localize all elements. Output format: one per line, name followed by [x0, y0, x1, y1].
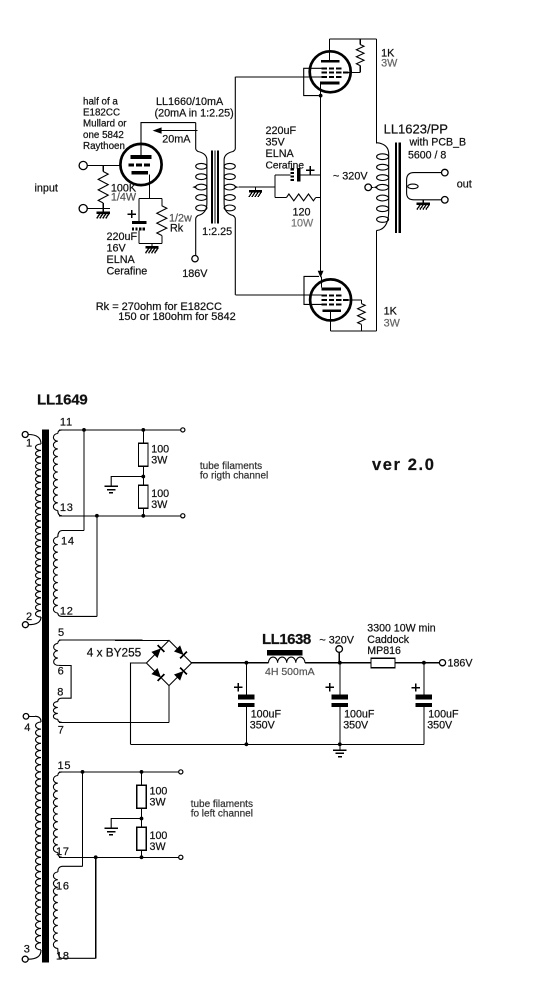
junction right ch b [95, 514, 99, 518]
wire 15 to 16 parallel link [82, 772, 84, 866]
current arrow 20mA [153, 127, 162, 133]
svg-text:2: 2 [26, 611, 32, 623]
wire V1 plate to T1 primary [141, 123, 196, 156]
ground left ch [105, 827, 118, 829]
tube V1 half E182CC envelope [120, 144, 161, 185]
terminal filament + right ch [181, 428, 185, 432]
plus mark C3 [412, 687, 420, 689]
plus mark C1 [234, 686, 242, 688]
svg-text:1/4W: 1/4W [111, 192, 137, 204]
svg-text:18: 18 [56, 951, 70, 963]
tube V2 grid g2 dashes [322, 72, 327, 74]
T3 primary winding 4-3 [29, 715, 35, 717]
T3 winding 15-17 [58, 772, 62, 776]
resistor Rk [161, 199, 163, 206]
svg-text:Rk: Rk [170, 223, 184, 235]
tube V3 grid g2 dashes [322, 299, 327, 301]
junction left ch mid [140, 817, 144, 821]
wire top rail [330, 38, 377, 40]
svg-text:3W: 3W [384, 318, 401, 330]
bridge rectifier diamond [146, 640, 191, 685]
ground at input [102, 209, 104, 212]
svg-text:7: 7 [58, 725, 64, 737]
svg-text:4H 500mA: 4H 500mA [265, 666, 315, 678]
resistor 120 10W [275, 196, 286, 198]
svg-text:220uF: 220uF [266, 125, 297, 137]
svg-text:6: 6 [58, 666, 64, 678]
wire cap branch [275, 174, 290, 176]
capacitor 220uF/35V [290, 168, 294, 181]
svg-text:186V: 186V [448, 657, 474, 669]
svg-text:35V: 35V [266, 137, 286, 149]
ground at center tap [254, 187, 256, 190]
svg-text:with PCB_B: with PCB_B [409, 136, 467, 148]
T3 winding 5-6 [58, 640, 62, 643]
tube V3 plate bar [323, 309, 341, 312]
junction left ch a [81, 770, 85, 774]
junction C2 top [338, 661, 342, 665]
junction C1 top [245, 661, 249, 665]
wire filament rail bottom left ch [59, 856, 179, 858]
junction right ch c [141, 428, 145, 432]
svg-text:Cerafine: Cerafine [107, 266, 148, 278]
wire cathode bus [320, 96, 322, 272]
svg-text:Mullard or: Mullard or [83, 119, 127, 130]
wire center tap to 320V terminal [372, 186, 374, 188]
input terminal J2 (return) [79, 205, 87, 213]
capacitor C1 100uF/350V [245, 663, 247, 695]
wire winding 7 to bridge [59, 721, 169, 723]
svg-text:1K: 1K [384, 306, 398, 318]
T3 primary terminal 2 [22, 622, 28, 628]
svg-text:8: 8 [57, 687, 63, 699]
diode D3 (left-bottom) [151, 668, 161, 678]
terminal out hot [442, 169, 449, 176]
wire B+ rail lower [375, 231, 377, 331]
svg-text:5600 / 8: 5600 / 8 [408, 150, 446, 162]
T1 core [211, 151, 213, 224]
svg-text:3W: 3W [151, 455, 168, 467]
junction C1 bottom [245, 742, 249, 746]
svg-text:input: input [35, 183, 58, 195]
wire 11 to 14 parallel link [83, 430, 85, 531]
svg-text:3W: 3W [150, 797, 167, 809]
T1 primary tap mark [192, 186, 196, 189]
wire grid rail upper [235, 76, 321, 78]
transformer T1 LL1660 secondary [224, 77, 235, 295]
T3 winding 14-12 [58, 531, 84, 538]
choke LL1638 winding [269, 657, 305, 663]
transformer T2 secondary [407, 173, 442, 200]
svg-text:100uF: 100uF [251, 708, 282, 720]
wire bottom PSU rail [131, 743, 424, 745]
wire B+ rail upper [375, 39, 377, 144]
junction right ch d [141, 514, 145, 518]
svg-text:12: 12 [60, 606, 74, 618]
wire 17 to 18 parallel link [95, 857, 97, 958]
input terminal J1 (hot) [79, 161, 87, 169]
transformer T1 LL1660 primary [196, 123, 207, 256]
T3 winding 11-13 [58, 430, 62, 434]
terminal 186V (T1 primary return) [192, 256, 198, 262]
wire input to grid [87, 165, 120, 167]
svg-text:20mA: 20mA [162, 134, 191, 146]
plus mark C2 [326, 686, 334, 688]
T3 winding 16-18 [58, 866, 83, 872]
T2 primary center tap mark [373, 186, 376, 189]
svg-text:Cerafine: Cerafine [266, 161, 305, 172]
tube V2 grid g1 dashes [322, 76, 327, 78]
junction C3 top [422, 661, 426, 665]
tube V1 plate bar [131, 155, 152, 159]
svg-text:~ 320V: ~ 320V [333, 171, 368, 183]
svg-text:4 x BY255: 4 x BY255 [87, 645, 142, 659]
svg-text:15: 15 [58, 760, 72, 772]
V3 g3-cathode strap [304, 276, 322, 304]
wire grid rail lower [235, 294, 321, 296]
node bias network left bracket [274, 175, 276, 198]
svg-text:4: 4 [24, 722, 30, 734]
terminal filament - right ch [181, 514, 185, 518]
tube V3 cathode bar [321, 287, 341, 290]
capacitor C3 100uF/350V [423, 663, 425, 695]
tube V3 grid g3 dashes [322, 303, 327, 305]
wire V1 cathode [149, 175, 151, 199]
svg-text:14: 14 [61, 536, 75, 548]
svg-text:out: out [457, 179, 472, 191]
transformer T2 primary [376, 143, 388, 231]
diode D2 (top-right) [174, 645, 184, 655]
svg-text:16: 16 [56, 881, 70, 893]
junction left ch d [140, 855, 144, 859]
svg-text:fo left channel: fo left channel [191, 808, 253, 819]
svg-text:MP816: MP816 [367, 645, 401, 657]
tube V3 envelope [310, 279, 351, 320]
svg-text:ELNA: ELNA [107, 254, 136, 266]
resistor 100 3W lower right ch [142, 477, 144, 486]
tube V3 grid g1 dashes [322, 294, 327, 296]
svg-text:ver 2.0: ver 2.0 [372, 456, 436, 474]
wire winding 5 to bridge [59, 639, 169, 641]
resistor Caddock MP816 [371, 658, 395, 668]
svg-text:1:2.25: 1:2.25 [202, 226, 232, 238]
svg-text:100uF: 100uF [344, 708, 375, 720]
T3 primary terminal 3 [22, 956, 28, 962]
tube V1 grid dashes [128, 164, 134, 167]
tube V2 grid g3 dashes [322, 67, 327, 69]
svg-text:10W: 10W [291, 218, 314, 230]
svg-text:Raythoen: Raythoen [83, 141, 125, 152]
svg-text:fo rigth channel: fo rigth channel [200, 470, 268, 481]
wire DC plus rail [192, 662, 269, 664]
junction left ch c [140, 770, 144, 774]
wire input return [87, 208, 110, 210]
svg-text:half of a: half of a [83, 97, 118, 108]
svg-text:3300 10W min: 3300 10W min [367, 623, 435, 635]
diode D1 (left-top) [151, 648, 161, 658]
svg-text:17: 17 [56, 846, 70, 858]
junction left ch b [94, 855, 98, 859]
svg-text:150 or 180ohm for 5842: 150 or 180ohm for 5842 [118, 311, 235, 323]
terminal ~320V PSU [336, 646, 343, 653]
wire bottom rail [331, 330, 377, 332]
wire filament rail top left ch [59, 771, 179, 773]
wire to ground right ch [111, 477, 143, 487]
resistor 1K 3W lower [349, 299, 362, 301]
junction C2 bottom [338, 742, 342, 746]
svg-text:350V: 350V [343, 720, 369, 732]
svg-text:3W: 3W [381, 58, 398, 70]
svg-text:3: 3 [24, 944, 30, 956]
junction right ch a [82, 428, 86, 432]
ground PSU [339, 744, 341, 750]
resistor 1K 3W upper [359, 39, 361, 45]
svg-text:350V: 350V [427, 720, 453, 732]
wire cathode network bottom rail [139, 242, 162, 244]
capacitor C2 100uF/350V [339, 663, 341, 695]
T3 primary terminal 1 [22, 432, 28, 438]
svg-text:ELNA: ELNA [266, 148, 295, 160]
svg-text:LL1649: LL1649 [37, 392, 88, 409]
tube V1 cathode bar [132, 171, 149, 175]
wire choke to 186V [305, 662, 440, 664]
svg-text:one 5842: one 5842 [83, 130, 124, 141]
svg-text:100uF: 100uF [428, 708, 459, 720]
svg-text:LL1660/10mA: LL1660/10mA [156, 96, 224, 108]
T3 winding 8-7 [58, 698, 62, 701]
svg-text:~ 320V: ~ 320V [319, 635, 354, 647]
wire 6-8 series link [62, 666, 71, 699]
svg-text:LL1638: LL1638 [262, 631, 311, 648]
svg-text:186V: 186V [182, 268, 208, 280]
ground at T2 secondary [422, 200, 424, 203]
plus mark of 220uF/16V [128, 213, 136, 215]
svg-text:(20mA in 1:2.25): (20mA in 1:2.25) [155, 108, 234, 120]
svg-text:5: 5 [58, 627, 64, 639]
wire center tap [239, 186, 276, 188]
terminal ~320V plate supply [365, 184, 372, 191]
svg-text:16V: 16V [107, 243, 127, 255]
svg-text:220uF: 220uF [107, 231, 138, 243]
resistor 100 3W upper left ch [141, 772, 143, 785]
ground below Rk [151, 243, 153, 246]
wire filament rail bottom right ch [59, 515, 181, 517]
T3 primary winding 1-2 [28, 435, 41, 445]
wire 13 to 12 parallel link [96, 516, 98, 617]
wire cathode network top rail [139, 198, 162, 200]
tube V2 plate bar [321, 60, 339, 63]
svg-text:13: 13 [60, 502, 74, 514]
diode D4 (bottom-right) [174, 671, 184, 681]
svg-text:LL1623/PP: LL1623/PP [384, 121, 448, 136]
wire V3 plate lead [330, 312, 332, 331]
resistor 100K grid leak [102, 166, 104, 172]
svg-text:11: 11 [60, 417, 73, 429]
T1 secondary center tap mark [235, 186, 239, 189]
junction right ch mid [141, 475, 145, 479]
svg-text:3W: 3W [150, 841, 167, 853]
terminal filament - left ch [179, 855, 183, 859]
junction V2 cathode [319, 94, 323, 98]
choke LL1638 bar [267, 650, 303, 655]
terminal out return [442, 197, 449, 204]
T3 primary terminal 4 hook [23, 714, 29, 720]
svg-text:1: 1 [26, 438, 32, 450]
capacitor 220uF/16V bypass [138, 199, 140, 222]
wire V2 cathode lead [320, 85, 322, 96]
V2 g3-cathode strap [304, 68, 322, 95]
tube V2 cathode bar [320, 82, 340, 85]
svg-text:E182CC: E182CC [83, 108, 120, 119]
T2 core [395, 143, 397, 233]
wire V2 plate lead [329, 39, 331, 60]
wire DC minus [131, 663, 147, 744]
terminal 186V PSU [439, 660, 445, 666]
wire filament rail top right ch [59, 429, 181, 431]
wire V3 cathode lead [320, 276, 322, 287]
wire to ground left ch [111, 819, 141, 829]
transformer T3 core [42, 430, 49, 963]
resistor 100 3W lower left ch [141, 819, 143, 828]
tube V2 envelope [310, 51, 351, 92]
svg-text:350V: 350V [250, 720, 276, 732]
resistor 100 3W upper right ch [142, 430, 144, 443]
plus mark of 220uF/35V [306, 169, 314, 171]
ground right ch [105, 485, 118, 487]
svg-text:3W: 3W [151, 499, 168, 511]
terminal filament + left ch [179, 770, 183, 774]
